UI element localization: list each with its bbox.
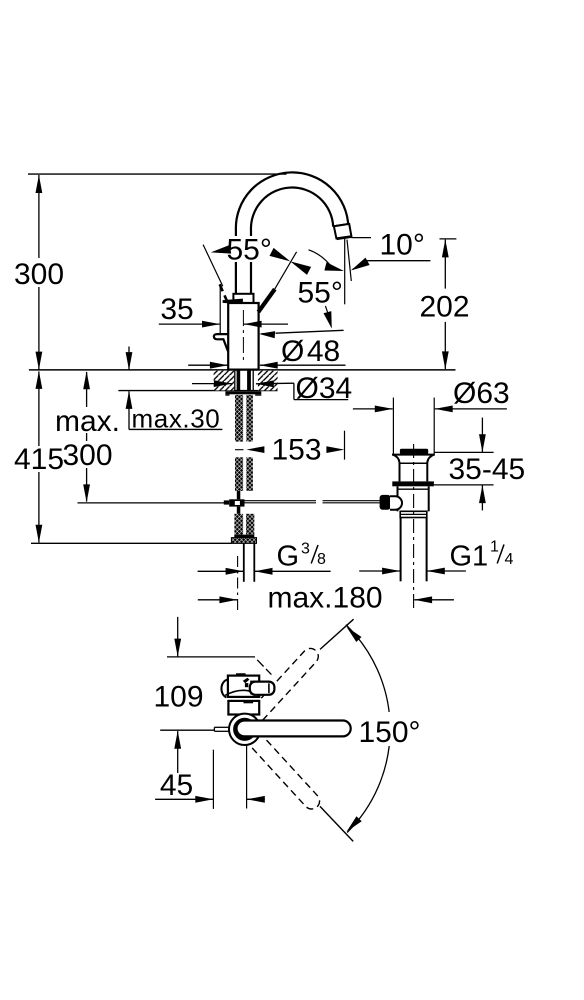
pop-up rod clamp block [229, 499, 244, 506]
dim G3/8 left arrow [226, 568, 244, 575]
mounting nut (hatched dark) [231, 538, 256, 544]
dim 300 top arrow [36, 175, 43, 193]
dim G1 1/4 left arrow [382, 568, 400, 575]
dim max300 vertical line [86, 372, 88, 502]
pop-up rod right (double line) [245, 500, 317, 502]
dim 153 left arrow [246, 446, 264, 453]
svg-text:300: 300 [14, 258, 64, 291]
dim 202 top arrow [442, 239, 449, 257]
dim max180 line right [414, 599, 454, 601]
threaded shank section B [235, 457, 243, 491]
handle wedge at collar (black) [223, 299, 243, 305]
dim 45 right arrow [247, 796, 265, 803]
threaded shank section A [235, 395, 243, 442]
dim 109 bottom arrow [174, 731, 181, 749]
top view: phantom handle upper (dashed) [233, 645, 322, 740]
handle rest line arrow [259, 331, 275, 338]
drain flange top [392, 454, 435, 456]
svg-text:Ø 48: Ø 48 [281, 335, 340, 368]
svg-text:45: 45 [160, 769, 193, 802]
spout outer arc + riser left line [236, 172, 348, 293]
svg-text:4: 4 [505, 551, 514, 568]
dim 45 left arrow [195, 796, 213, 803]
angle 55-1 leader arrow [211, 245, 231, 254]
top view: phantom handle lower (dashed) [234, 717, 323, 812]
dim Ø48 line right part [260, 364, 346, 366]
counter hatch left [214, 371, 235, 391]
dim G3/8 right arrow [255, 568, 273, 575]
max180 left extension dash-dot [237, 556, 239, 614]
phantom lever dashed (left) [220, 284, 228, 303]
svg-text:35-45: 35-45 [449, 453, 526, 486]
svg-text:55°: 55° [227, 234, 272, 267]
dim max300 top arrow [83, 371, 90, 389]
dim 45 line left [155, 798, 213, 800]
angle 55-2 arc arrow [324, 262, 344, 271]
drain O-ring band (black) [392, 481, 434, 486]
dim 415 bottom arrow [36, 525, 43, 543]
shank break line [235, 449, 244, 451]
outlet level reference line [351, 237, 371, 239]
phantom side dashes at line end [257, 660, 263, 667]
dim Ø34 line left part [192, 383, 232, 385]
rod end block [224, 500, 229, 504]
svg-text:150°: 150° [359, 716, 421, 749]
drain body seam [400, 462, 428, 464]
raised lever (thick stroke) [258, 289, 275, 312]
max30 label underline [129, 428, 223, 430]
bottom reference line (415 level) [31, 542, 232, 544]
dim 35 right arrow [244, 321, 262, 328]
faucet body [228, 303, 258, 370]
dim Ø63 line right part [435, 408, 507, 410]
dim G1 1/4 line left [359, 570, 400, 572]
Ø34 label underline [294, 399, 348, 401]
side knob (top view) [250, 682, 275, 695]
svg-text:Ø63: Ø63 [453, 377, 510, 410]
pop-up rod pin lower [237, 507, 241, 514]
drain centerline dash-dot [413, 444, 415, 609]
dim 35 line left part [159, 323, 220, 325]
shank outer lines between counter lines [234, 370, 236, 391]
dim d34 right arrow [256, 380, 274, 387]
drain: Ø63 extension lines [392, 398, 394, 455]
side knob black root [243, 678, 250, 684]
dim max30 bottom arrow [126, 391, 133, 409]
left bulge (spout from top) [221, 680, 227, 698]
150deg angle leg line bottom [320, 806, 353, 841]
svg-text:202: 202 [419, 291, 469, 324]
dim d48 left arrow [210, 362, 228, 369]
drain flange sides (s-curves) [393, 455, 400, 482]
dim d63 right arrow [435, 406, 453, 413]
dim 415 top arrow [36, 371, 43, 389]
55deg-2 leader to rest line [325, 306, 328, 316]
pop-up rod pin upper [237, 491, 241, 499]
svg-text:1: 1 [490, 539, 499, 556]
svg-text:Ø34: Ø34 [296, 372, 353, 405]
dim G3/8 line left [198, 570, 244, 572]
dim 35 extension line [219, 284, 221, 335]
handle hook (side view lever tip) [214, 334, 228, 352]
dim max180 line left [198, 599, 237, 601]
spout inner arc + riser right line [251, 188, 333, 294]
handle rest reference line (dashed start) [262, 332, 272, 334]
dim d48 right arrow [260, 362, 278, 369]
dim 35-45 bottom arrow [479, 485, 486, 503]
angle 150 bottom arrow [347, 816, 362, 831]
drain tailpipe joint [400, 511, 427, 517]
svg-text:153: 153 [271, 434, 321, 467]
counter bottom line [118, 390, 277, 392]
dim 415 vertical line [38, 372, 40, 543]
dim 35-45 top ref line [434, 451, 493, 453]
dim 35 left arrow [202, 321, 220, 328]
cartridge collar [233, 294, 253, 303]
svg-text:35: 35 [160, 293, 193, 326]
dim 153 right arrow [326, 446, 344, 453]
svg-text:55°: 55° [298, 277, 343, 310]
dim max180 left arrow [219, 596, 237, 603]
shank band above nut [234, 535, 254, 538]
text masks [25, 258, 53, 287]
angle 150 top arrow [346, 627, 361, 642]
svg-text:10°: 10° [380, 229, 425, 262]
dim G1 1/4 right arrow [427, 568, 445, 575]
dim max180 right arrow [414, 596, 432, 603]
dim Ø34 leader right + label bracket [256, 382, 294, 385]
dim 202 vertical line [444, 240, 446, 289]
shank thread bars (black) in counter [237, 370, 241, 390]
dim d34 left arrow [214, 380, 232, 387]
dim 35-45 vertical arrows lines [481, 418, 483, 452]
cap top notch [236, 673, 246, 675]
dim G1 1/4 line right [427, 570, 466, 572]
top view: 150 degree swing arc [346, 625, 390, 833]
aerator outlet rim [337, 237, 352, 239]
svg-text:415: 415 [14, 443, 64, 476]
svg-text:300: 300 [62, 439, 112, 472]
svg-text:8: 8 [317, 551, 326, 568]
hub ring (thick) [235, 719, 255, 739]
dim 202 top tick [440, 238, 457, 240]
supply pipe G3/8 [243, 544, 245, 582]
dim 153 extension line [344, 431, 346, 460]
aerator joint line [334, 224, 349, 226]
svg-text:max.30: max.30 [132, 404, 221, 434]
pop-up rod left wire [78, 502, 225, 504]
dim max30 upper arrow line [128, 347, 130, 370]
svg-text:max.180: max.180 [268, 582, 383, 615]
top view: 109 front reference line [167, 656, 255, 658]
swivel circle arc inside [225, 690, 258, 695]
10-degree label underline/leader [364, 260, 430, 262]
dim 45 line right [247, 798, 265, 800]
lever front stub [214, 726, 230, 728]
angle 55-1 bowtie arrow upper [290, 261, 311, 275]
top reference line (spout apex level) [28, 173, 287, 175]
55deg-2 angle arc [309, 250, 333, 269]
threaded shank section C [234, 514, 243, 535]
dim G3/8 line right [255, 570, 331, 572]
svg-text:max.: max. [55, 405, 120, 438]
vertical plumb reference under aerator [344, 239, 346, 305]
dim 202 bottom arrow [442, 351, 449, 369]
dim max30 top arrow [126, 352, 133, 370]
rod ball knob at drain [380, 495, 391, 510]
dim max30 lower line + label bracket [128, 391, 130, 429]
top view center reference line left [160, 729, 214, 731]
phantom lever extension line L1 [203, 245, 223, 287]
drain plug cap (black) [400, 449, 428, 454]
150deg angle leg line top [320, 619, 354, 649]
top view: upper cap block [228, 676, 259, 697]
mounting flange under counter [225, 391, 261, 394]
svg-text:109: 109 [153, 681, 203, 714]
svg-text:G1: G1 [450, 541, 489, 573]
dim 35-45 top arrow [479, 434, 486, 452]
dim Ø63 line left part [353, 408, 393, 410]
svg-text:3: 3 [301, 541, 310, 558]
dim 300 vertical line [38, 175, 40, 370]
dim 35-45 bottom ref line [434, 484, 494, 486]
body centerline [242, 310, 244, 363]
dim Ø48 line left part [188, 364, 228, 366]
dim 35 line right part [244, 323, 288, 325]
dim d63 left arrow [375, 406, 393, 413]
drain lower body [397, 486, 399, 511]
angle 55-1 bowtie arrow lower [270, 248, 291, 262]
drain tailpipe [400, 518, 402, 582]
svg-text:G: G [277, 541, 300, 573]
top view: lower body block [228, 701, 259, 715]
counter hatch right [258, 371, 278, 391]
hub outer circle [229, 714, 260, 745]
angle 10deg leader arrow [351, 258, 370, 271]
10-degree spray direction line [347, 240, 351, 281]
dim 109 top arrow [174, 639, 181, 657]
dim 109 vertical lines [177, 617, 179, 657]
dim max300 bottom arrow [83, 484, 90, 502]
raised lever extension line L2 [275, 252, 297, 289]
rod socket half-circle [390, 496, 402, 509]
counter top line [29, 369, 456, 371]
angle 55-2 leader arrow [324, 311, 332, 329]
aerator body [334, 224, 352, 239]
dim 300 bottom arrow [36, 352, 43, 370]
handle capsule [237, 721, 351, 737]
dim 45 extension lines [212, 750, 214, 809]
